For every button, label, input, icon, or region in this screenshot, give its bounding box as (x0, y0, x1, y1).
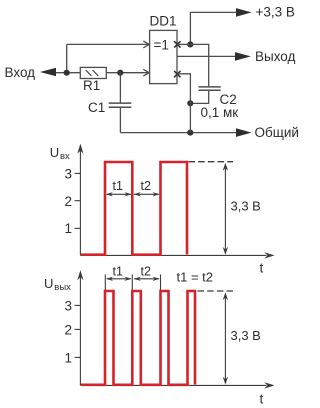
wire C2 bottom to ground branch (190, 91, 208, 104)
svg-text:t1: t1 (113, 179, 123, 193)
svg-text:=1: =1 (154, 38, 169, 53)
svg-text:Выход: Выход (255, 49, 296, 64)
node input junction (64, 70, 70, 76)
node axis Y diagram2 (79, 273, 81, 385)
label tick 2 (75, 200, 80, 202)
wire output waveform red (81, 291, 195, 385)
wire from top rail down to Vcc node (189, 12, 191, 44)
node extension tick 1 (104, 275, 106, 291)
node axis Y diagram1 (79, 147, 81, 256)
wire Vcc pin to node (177, 43, 190, 45)
svg-text:1: 1 (65, 351, 73, 366)
svg-text:0,1 мк: 0,1 мк (201, 105, 239, 120)
node voltage dimension arrow diagram1 (224, 166, 226, 252)
svg-text:t2: t2 (141, 179, 151, 193)
XOR gate DD1 body (150, 30, 177, 83)
svg-text:вых: вых (54, 282, 71, 293)
svg-text:+3,3 В: +3,3 В (256, 5, 295, 20)
svg-text:3: 3 (65, 167, 73, 182)
node extension tick 3 (160, 275, 162, 291)
wire top input (67, 43, 150, 45)
pin GND cross mark (174, 71, 180, 77)
svg-text:Общий: Общий (255, 125, 299, 140)
svg-text:вх: вх (60, 151, 70, 162)
label tick 1 (75, 227, 80, 229)
node RC junction (117, 70, 123, 76)
wire ground rail (120, 132, 237, 134)
wire C1 to ground rail (119, 108, 121, 133)
wire input waveform red (81, 162, 187, 255)
wire GND pin down to rail (177, 74, 190, 133)
label tick 1 diagram2 (75, 356, 80, 358)
svg-text:C1: C1 (88, 100, 105, 115)
svg-text:R1: R1 (83, 78, 100, 93)
svg-text:Вход: Вход (5, 65, 36, 80)
node axis X diagram1 (80, 254, 266, 256)
label tick 3 (75, 172, 80, 174)
pin Vcc cross mark (174, 41, 180, 47)
svg-text:DD1: DD1 (150, 14, 177, 29)
svg-text:t: t (260, 261, 264, 276)
label tick 2 diagram2 (75, 328, 80, 330)
capacitor C1 (109, 103, 132, 107)
arrow Выход terminal (235, 52, 251, 61)
wire down to C1 (119, 73, 121, 103)
svg-text:2: 2 (65, 194, 73, 209)
node C2 ground junction (187, 100, 193, 106)
node axis X diagram2 (80, 384, 266, 386)
svg-text:1: 1 (65, 221, 73, 236)
node t1 dimension arrow diagram1 (107, 193, 131, 195)
node Vcc junction (187, 41, 193, 47)
node ground junction (187, 130, 193, 136)
svg-text:t1 = t2: t1 = t2 (177, 270, 214, 285)
pin arrow top input (143, 41, 149, 48)
svg-text:3,3 В: 3,3 В (231, 328, 261, 343)
arrow Общий terminal (236, 128, 252, 137)
svg-text:2: 2 (65, 323, 73, 338)
node t1 dimension arrow diagram2 (107, 278, 131, 280)
svg-text:t1: t1 (113, 264, 123, 278)
wire dashed level diagram1 (189, 161, 234, 163)
wire +3.3V top rail (190, 11, 237, 13)
svg-text:t: t (260, 392, 264, 407)
svg-text:3: 3 (65, 299, 73, 314)
wire input left segment (52, 72, 80, 74)
node t2 dimension arrow diagram1 (134, 193, 159, 195)
wire R1 to gate (106, 72, 149, 74)
svg-text:U: U (50, 145, 59, 160)
svg-text:t2: t2 (141, 264, 151, 278)
label tick 3 diagram2 (75, 304, 80, 306)
wire dashed level diagram2 (198, 290, 234, 292)
capacitor C2 (199, 87, 221, 90)
arrow +3,3 V terminal (236, 8, 252, 17)
wire output (177, 55, 236, 57)
node t2 dimension arrow diagram2 (134, 278, 159, 280)
node extension tick 2 (131, 275, 133, 291)
svg-text:3,3 В: 3,3 В (231, 198, 261, 213)
arrow Вход terminal (40, 68, 56, 77)
wire Vcc node to C2 top (190, 44, 208, 86)
svg-text:U: U (44, 276, 53, 291)
pin arrow bottom input (143, 69, 149, 76)
wire vertical input branch (66, 44, 68, 72)
node voltage dimension arrow diagram2 (224, 295, 226, 381)
resistor R1 (80, 67, 106, 78)
